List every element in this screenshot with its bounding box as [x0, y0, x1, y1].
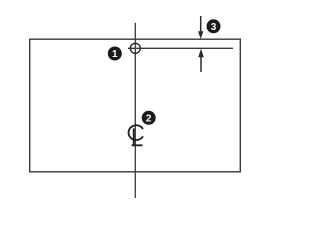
- up arrow: [198, 49, 204, 72]
- panel outline: [30, 39, 241, 172]
- vertical centerline: [134, 23, 136, 198]
- svg-text:2: 2: [146, 113, 152, 124]
- datum circle: [130, 43, 140, 53]
- badge 1: [108, 47, 122, 61]
- horizontal datum line: [128, 47, 233, 49]
- badge 3: [207, 19, 221, 33]
- down arrow: [198, 16, 203, 39]
- badge 2: [142, 111, 156, 125]
- svg-text:3: 3: [211, 22, 217, 33]
- centerline CL symbol: [129, 125, 143, 145]
- svg-text:1: 1: [112, 49, 118, 60]
